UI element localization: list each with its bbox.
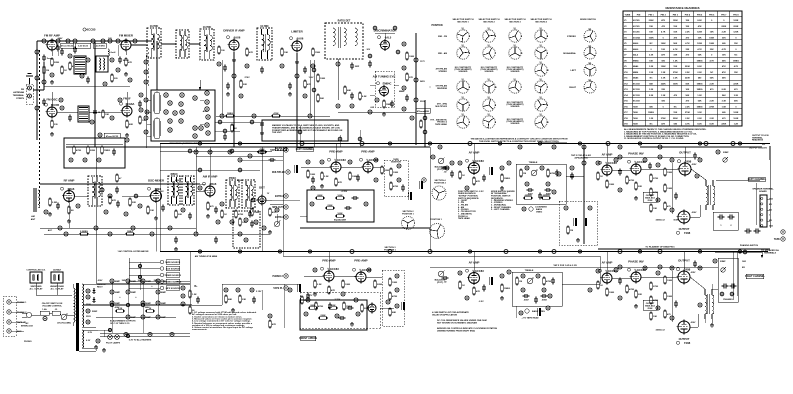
resistor R118: [111, 74, 119, 83]
label C1 47mmf: [61, 43, 74, 48]
node 170: [96, 339, 100, 343]
wire x262 vert: [261, 147, 263, 252]
node 155: [656, 306, 660, 310]
box am det dashed: [233, 211, 260, 248]
svg-text:11. MODULATION CONTROL OUTPUT: 11. MODULATION CONTROL OUTPUT OF R2. 7. …: [624, 137, 684, 140]
resistor R33: [129, 198, 137, 207]
node 152: [618, 296, 622, 300]
svg-text:33K: 33K: [710, 49, 714, 51]
svg-text:47K: 47K: [307, 83, 311, 86]
node 261: [35, 50, 39, 54]
capacitor C49 couple: [402, 302, 405, 310]
capacitor C126 interstage: [442, 166, 449, 174]
resistor R20: [73, 146, 82, 155]
lamp feed AUX SOURCE: [129, 266, 180, 270]
lamp PL1 pilot: [108, 335, 113, 340]
resistor R81: [606, 180, 615, 189]
node 113: [525, 166, 529, 170]
tube V6 LIMITER 6AU6: [291, 30, 303, 53]
transformer T13 primary winding: [74, 288, 76, 322]
tube V21 OUTPUT 7408 lower2: [677, 320, 691, 335]
jack J10 in: [422, 178, 426, 182]
node apron 42: [179, 119, 183, 123]
svg-text:6.3V: 6.3V: [86, 340, 91, 342]
capacitor C135 phase lower2: [730, 283, 737, 288]
svg-text:6.3V TO ALL HEATERS: 6.3V TO ALL HEATERS: [129, 339, 152, 342]
label V6 type: [290, 36, 304, 40]
node 100: [313, 268, 317, 272]
node 75: [58, 226, 62, 230]
node 291: [244, 238, 248, 242]
svg-text:NC: NC: [650, 43, 654, 45]
svg-text:220K: 220K: [673, 118, 678, 120]
svg-text:10K: 10K: [653, 316, 657, 318]
node 186: [288, 288, 292, 292]
svg-text:47K: 47K: [128, 61, 132, 64]
capacitor C30: [56, 203, 60, 210]
switch S1 section 1 position 4: [457, 79, 469, 93]
wire pa plate links: [691, 169, 706, 180]
svg-text:AUX: AUX: [17, 330, 22, 333]
resistor R131: [231, 124, 237, 133]
svg-text:EXTRA: EXTRA: [275, 195, 283, 198]
resistor R93: [626, 285, 635, 294]
svg-text:MODE SWITCH: MODE SWITCH: [580, 19, 596, 21]
FM antenna terminal: [13, 74, 33, 105]
ground g31: [288, 92, 292, 96]
svg-text:TAPE PL: TAPE PL: [273, 287, 283, 290]
svg-text:56K: 56K: [698, 55, 702, 57]
tube V14A PRE-AMP ECC83 R1: [322, 259, 335, 283]
svg-text:ECC83: ECC83: [633, 83, 641, 85]
node 131: [614, 158, 618, 162]
svg-text:TREBLE: TREBLE: [529, 162, 538, 164]
svg-text:AT (VOLUME): AT (VOLUME): [57, 322, 71, 325]
resistor R103 dropping: [145, 308, 155, 312]
jack J4 aux: [7, 329, 11, 333]
node 17: [139, 108, 143, 112]
switch S2 mode position 3: [584, 62, 596, 76]
svg-text:250K: 250K: [648, 200, 653, 202]
transformer T2: [176, 30, 189, 58]
svg-text:470K: 470K: [273, 112, 279, 115]
svg-text:1.2K: 1.2K: [649, 118, 654, 120]
node 162: [86, 295, 90, 299]
node 224: [238, 232, 242, 236]
svg-text:PIN 4: PIN 4: [685, 13, 691, 16]
svg-text:270V: 270V: [244, 77, 250, 79]
node 150: [596, 269, 600, 273]
svg-text:100K: 100K: [661, 43, 666, 45]
svg-text:8.2K: 8.2K: [697, 124, 702, 126]
node 276: [181, 208, 185, 212]
svg-text:30MF: 30MF: [115, 292, 121, 294]
svg-text:15K: 15K: [673, 26, 677, 28]
resistor R2: [61, 66, 67, 75]
svg-text:120K: 120K: [733, 32, 738, 34]
node 82: [262, 226, 266, 230]
wire am bus: [40, 183, 200, 185]
svg-text:56K: 56K: [685, 83, 689, 85]
resistor R111: [304, 80, 312, 89]
node 70: [44, 210, 48, 214]
capacitor C106: [138, 101, 142, 108]
svg-text:415V: 415V: [692, 163, 697, 166]
svg-text:40MF: 40MF: [161, 280, 167, 283]
node 105: [395, 274, 399, 278]
svg-text:1.2K: 1.2K: [734, 124, 739, 126]
svg-text:470K: 470K: [546, 280, 552, 283]
wire pa2 link2: [641, 276, 678, 278]
node 137: [670, 208, 674, 212]
node apron 31: [193, 96, 197, 100]
svg-text:EM84C: EM84C: [383, 81, 392, 85]
svg-text:470K: 470K: [238, 213, 244, 216]
capacitor C124: [311, 177, 315, 184]
wire heater pair: [100, 332, 190, 334]
capacitor C3: [42, 55, 53, 62]
connector slot 2: [154, 118, 160, 139]
node 201: [295, 74, 299, 78]
node 270: [350, 250, 354, 254]
svg-text:56K: 56K: [698, 101, 702, 103]
resistor R116: [139, 116, 147, 125]
capacitor C105: [42, 99, 46, 106]
capacitor C46 coupling: [298, 284, 301, 292]
svg-text:100K: 100K: [320, 78, 326, 80]
wire am mid: [40, 227, 196, 229]
svg-text:1.5K: 1.5K: [649, 72, 654, 74]
label V7 type: [378, 35, 392, 39]
svg-text:1MEG: 1MEG: [504, 288, 510, 290]
ground g4: [125, 133, 129, 137]
switch S2 mode position 1: [584, 28, 596, 42]
node bus ticks upper: [198, 142, 201, 145]
resistor R13: [312, 48, 321, 57]
svg-text:6BA6: 6BA6: [210, 182, 217, 186]
node apron 44: [168, 128, 172, 132]
capacitor C11: [260, 67, 264, 74]
svg-text:2.2K: 2.2K: [673, 78, 678, 80]
label right channel box: [745, 274, 765, 278]
svg-text:470mmf 20K: 470mmf 20K: [417, 110, 430, 113]
svg-text:6AU6: 6AU6: [633, 42, 639, 45]
wire speaker feed lower: [715, 251, 762, 253]
ground g10: [48, 212, 52, 216]
choke L5 1.2mH: [108, 49, 116, 56]
ground g18: [634, 304, 638, 308]
svg-text:56K: 56K: [722, 95, 726, 97]
node 10: [110, 116, 114, 120]
transformer T8 AM IF: [182, 176, 194, 205]
node 158: [698, 303, 702, 307]
node 73: [124, 212, 128, 216]
svg-text:455KC: 455KC: [170, 173, 178, 176]
svg-text:PIN 5: PIN 5: [697, 14, 703, 16]
svg-text:56K: 56K: [722, 60, 726, 62]
capacitor C55: [545, 188, 552, 196]
switch S1 section 4 position 6: [535, 114, 547, 128]
svg-text:2.2K: 2.2K: [710, 83, 715, 85]
wire rect bus: [96, 283, 190, 285]
capacitor C95 filter 30MF: [156, 301, 167, 305]
node apron 38: [205, 100, 209, 104]
node 8: [60, 106, 64, 110]
wire am det out: [270, 203, 283, 205]
switch S1 section 3 position 2: [509, 45, 521, 59]
resistor R4: [125, 58, 133, 67]
node 215: [103, 82, 107, 86]
wire pa vert x672: [671, 163, 673, 214]
svg-text:220K: 220K: [733, 83, 738, 85]
box phono input: [3, 296, 16, 336]
label C2 5-30mmf: [76, 43, 91, 48]
svg-text:22K: 22K: [638, 186, 642, 188]
node 230: [500, 166, 504, 170]
svg-text:1.5K: 1.5K: [722, 106, 727, 108]
capacitor C127 interstage lower: [442, 276, 449, 284]
capacitor C120: [56, 45, 60, 52]
label front apron box: [299, 336, 317, 340]
svg-text:1MEG: 1MEG: [104, 150, 110, 152]
ground g1: [50, 80, 54, 84]
svg-text:270K: 270K: [653, 192, 659, 194]
node 130: [596, 161, 600, 165]
capacitor C75 phase: [728, 214, 735, 219]
node 24: [402, 66, 406, 70]
wire tone out lower: [562, 283, 600, 285]
svg-text:47K: 47K: [331, 289, 335, 292]
node 95: [364, 202, 368, 206]
svg-text:EQUALIZER: EQUALIZER: [334, 219, 347, 222]
wire v1 bus drop: [94, 41, 96, 147]
svg-text:140V: 140V: [58, 37, 63, 40]
svg-text:(POT): (POT): [437, 282, 443, 284]
svg-text:15K: 15K: [734, 72, 738, 74]
svg-text:1K: 1K: [462, 175, 465, 177]
node 252: [300, 142, 304, 146]
svg-text:8.2K: 8.2K: [362, 96, 367, 98]
svg-text:8Ω: 8Ω: [769, 204, 772, 206]
node 78: [168, 226, 172, 230]
resistor R132: [257, 148, 267, 153]
svg-text:DRIVER IF AMP: DRIVER IF AMP: [223, 29, 244, 33]
svg-text:TAPE HEAD: TAPE HEAD: [458, 217, 470, 220]
svg-text:470K: 470K: [392, 295, 398, 298]
resistor R43: [381, 166, 390, 175]
resistor R113: [271, 112, 281, 117]
svg-text:47mmf 6C32: 47mmf 6C32: [106, 135, 119, 138]
svg-text:6CG8A: 6CG8A: [633, 36, 640, 39]
wire jack wires: [11, 301, 24, 303]
svg-text:220K: 220K: [320, 315, 326, 317]
wire tone nodes: [445, 166, 449, 170]
wire am if drops: [209, 147, 211, 196]
node 126: [521, 288, 525, 292]
wire x314 drop: [313, 60, 315, 147]
node 23: [402, 42, 406, 46]
ground g32: [260, 131, 264, 135]
label V9 type: [61, 187, 75, 191]
svg-text:120K: 120K: [697, 43, 702, 45]
svg-text:47K: 47K: [698, 25, 702, 28]
svg-text:100K: 100K: [609, 292, 615, 294]
svg-text:TERMINAL: TERMINAL: [13, 94, 25, 97]
svg-text:6AL5: 6AL5: [633, 54, 639, 57]
svg-text:OSC-MIXER: OSC-MIXER: [148, 179, 164, 183]
wire main top bus: [160, 143, 770, 145]
svg-text:2.2MEG: 2.2MEG: [80, 231, 88, 233]
svg-text:A.C. OUTLET: A.C. OUTLET: [29, 287, 43, 290]
svg-text:BOARD: BOARD: [759, 190, 767, 193]
svg-text:47K: 47K: [722, 65, 726, 68]
node 251: [618, 250, 622, 254]
resistor R130: [43, 66, 49, 75]
resistor R82: [626, 176, 635, 185]
node bus ticks lower: [198, 250, 201, 253]
svg-text:6AU6: 6AU6: [633, 48, 639, 51]
wire left vert: [36, 41, 38, 85]
node 9: [90, 120, 94, 124]
resistor R67: [541, 195, 551, 199]
svg-text:AGC: AGC: [203, 110, 208, 113]
svg-text:5 - LEFT CHANNEL: 5 - LEFT CHANNEL: [491, 208, 511, 211]
resistor R38: [269, 208, 277, 217]
resistor R95 column: [650, 282, 659, 291]
node 244: [268, 314, 272, 318]
node 76: [94, 226, 98, 230]
svg-text:ANTENNA: ANTENNA: [13, 91, 24, 94]
node 212: [145, 110, 149, 114]
svg-text:1MEG: 1MEG: [227, 113, 233, 115]
svg-text:455KC: 455KC: [229, 177, 237, 180]
svg-text:47K: 47K: [661, 123, 665, 126]
wire fm bottom line: [66, 146, 430, 148]
capacitor C97 filter 30MF: [141, 315, 152, 319]
capacitor C131: [188, 213, 192, 220]
node 222: [150, 232, 154, 236]
tube V5 DRIVER IF AMP 6AU6: [223, 29, 244, 52]
transformer T12 output lower: [705, 289, 714, 319]
capacitor C72: [674, 193, 678, 200]
wire t5 down: [337, 59, 339, 100]
ground g16: [576, 238, 580, 242]
node 284: [368, 54, 372, 58]
label V15B type: [466, 269, 485, 273]
wire mid extra links: [416, 144, 430, 146]
svg-text:MONAURAL: MONAURAL: [563, 52, 576, 55]
capacitor C100: [226, 83, 230, 90]
transformer T1 1st FM IF 10.7MC: [147, 25, 161, 58]
switch S1 section 2 position 1: [483, 28, 495, 42]
svg-text:VALUE OR APPLICATION: VALUE OR APPLICATION: [432, 313, 458, 316]
node 71: [76, 204, 80, 208]
node 262: [86, 58, 90, 62]
svg-text:280V: 280V: [154, 280, 159, 282]
svg-text:2.2K: 2.2K: [317, 284, 322, 286]
svg-text:680K: 680K: [317, 195, 323, 197]
resistor R73: [516, 277, 522, 286]
ground g30: [226, 92, 230, 96]
wire tuner y122: [215, 121, 260, 123]
wire am y170: [160, 169, 260, 171]
svg-text:1MEG: 1MEG: [733, 60, 739, 62]
capacitor C104: [390, 101, 394, 108]
capacitor C111: [214, 207, 218, 214]
resistor R137: [251, 208, 260, 217]
box TOP APRON connector chart: [151, 90, 215, 141]
resistor R31: [68, 206, 74, 215]
node 180: [224, 288, 228, 292]
node 231: [507, 161, 511, 165]
node 185: [354, 298, 358, 302]
svg-text:410V: 410V: [692, 211, 697, 214]
svg-text:2ND - FM: 2ND - FM: [438, 36, 447, 38]
resistor R142: [317, 94, 325, 103]
node 153: [643, 266, 647, 270]
node 220: [64, 232, 68, 236]
node 117: [522, 207, 526, 211]
svg-text:68K: 68K: [347, 90, 351, 92]
resistor R102 dropping: [115, 308, 125, 312]
svg-text:TUNER SOURCE: TUNER SOURCE: [164, 275, 181, 277]
node 107: [395, 304, 399, 308]
capacitor C47: [347, 306, 354, 310]
node 81: [254, 220, 258, 224]
svg-text:100K: 100K: [709, 37, 714, 39]
svg-text:10K: 10K: [661, 49, 665, 51]
svg-text:STEREO: STEREO: [567, 36, 576, 38]
svg-text:MONITOR: MONITOR: [391, 161, 401, 163]
label V21 OUTPUT 7408: [676, 337, 690, 345]
wire b2 bus: [96, 316, 176, 318]
svg-text:100K: 100K: [649, 37, 654, 39]
tube V1 FM RF AMP 6CC85: [44, 34, 60, 52]
wire T2 out: [189, 43, 200, 45]
node 280: [218, 120, 222, 124]
svg-text:20MF: 20MF: [146, 281, 152, 283]
box indicator dashed: [300, 292, 380, 328]
svg-text:UNUSED: UNUSED: [511, 71, 520, 73]
svg-text:4.7K: 4.7K: [697, 48, 702, 51]
jack J8 mpx out L: [272, 205, 288, 209]
wire tuning gang dashed: [39, 50, 41, 205]
wire apron leads: [147, 99, 151, 101]
capacitor C42: [352, 196, 359, 200]
capacitor C101: [288, 83, 292, 90]
resistor R107: [343, 302, 353, 311]
wire drop v16: [606, 144, 608, 166]
box adaptor parts: [64, 138, 125, 168]
svg-text:2.2K: 2.2K: [722, 32, 727, 34]
svg-text:100K: 100K: [409, 56, 415, 58]
switch S2 mode position 2: [584, 45, 596, 59]
svg-text:2.15V: 2.15V: [256, 291, 262, 293]
svg-text:100K: 100K: [392, 282, 398, 284]
capacitor C31: [116, 201, 120, 208]
label V19B type: [628, 268, 647, 272]
resistor R46: [325, 205, 335, 209]
capacitor C88 filter 20MF: [141, 279, 152, 283]
svg-text:PHASING SWITCH: PHASING SWITCH: [740, 244, 759, 247]
transformer T13 secondary HV: [82, 284, 84, 327]
capacitor C129 tone lower: [534, 297, 538, 304]
svg-text:STEREO: STEREO: [438, 71, 447, 73]
svg-text:NOT SHOWN ON SCHEMATIC DIAGRAM: NOT SHOWN ON SCHEMATIC DIAGRAM: [437, 321, 477, 324]
wire preamp bus down: [282, 147, 284, 230]
pot R76 bass lower: [525, 309, 545, 313]
svg-text:82K: 82K: [129, 124, 133, 126]
